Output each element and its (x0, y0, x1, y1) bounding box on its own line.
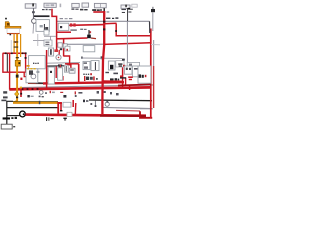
wire black y107.5 left (7, 107, 58, 109)
text row under G4 (80, 9, 88, 11)
bulb circle x107 y104 (105, 102, 109, 106)
gray connector x50.5 (50, 37, 52, 41)
dark dash left of bus A (28, 82, 43, 84)
wire red horiz y35.5 (116, 24, 150, 36)
wire red x122.5 vertical (122, 61, 124, 88)
wire gray long y87 (20, 85, 153, 88)
text row under G2 (42, 9, 51, 10)
wire red corner x68-71 y64 (67, 65, 71, 68)
clamp tick on orange bar (39, 101, 41, 104)
box G3 (72, 3, 79, 7)
text PIE right (110, 78, 119, 80)
wire red x61 stub (60, 103, 62, 110)
switch box x64.5-68 y65-72 (64, 65, 68, 72)
text marks bottom (46, 117, 47, 121)
small text left column (1, 91, 7, 101)
text row under G3 (71, 8, 78, 9)
wire red x58 elbow to bus (58, 102, 62, 104)
wire gray bus y21 (57, 20, 150, 22)
wire red x21 below bus B (20, 90, 22, 98)
connector on bottom bus (67, 112, 72, 116)
fuse symbols under G6 (121, 8, 132, 21)
wire orange x20.5 (20, 34, 22, 57)
wire black y66 (47, 65, 67, 67)
box x57.5-62.5 y68-80 (58, 68, 63, 80)
orange fuse block (15, 60, 20, 66)
red marks on relay plate (128, 76, 133, 78)
wire red x46.5 long vertical (46, 50, 48, 90)
yellow tick above bus left (20, 87, 22, 89)
wire red y81 overlay (103, 80, 122, 82)
lamp symbol with vertical wire top-left (32, 8, 34, 18)
box x48.5-53.5 y48 (48, 48, 53, 56)
gray stub x95 (94, 101, 96, 107)
orange connector diamond (14, 92, 19, 97)
junction dots x25.5 (25, 52, 27, 54)
wire red corner y56 (64, 56, 70, 64)
ground bar (3, 117, 10, 119)
wire red y53 (3, 52, 26, 54)
wire gray right stub above (149, 21, 151, 33)
wire black stub x89 (88, 30, 90, 35)
wire gray y107.5 right (103, 107, 152, 108)
orange dash x26.5-29.5 y65 (27, 65, 30, 67)
wire red x55.5 between boxes (55, 67, 57, 79)
wire red branch y23 (104, 22, 117, 25)
boxes row y60-70 mid-right (83, 61, 90, 69)
text marks right of cluster (70, 29, 76, 30)
box mid-left under bar (36, 20, 49, 32)
tick below connector diamond (16, 97, 18, 99)
wire black battery box top (7, 101, 13, 124)
wire red thin y110.7 (116, 109, 140, 112)
wire red bottom-right corner (140, 111, 152, 118)
dark tick left of gray y58 (81, 57, 83, 59)
relay component on y38 (87, 35, 91, 39)
wire red continues from orange (58, 103, 63, 114)
battery area small boxes bottom mid (63, 102, 71, 107)
black dot x10 (10, 34, 12, 36)
wire red x63.5 vertical (63, 38, 65, 56)
wire red x59.5 short (58, 50, 60, 55)
wire red blob x62.5 (62, 76, 64, 81)
wire red x71 into relay (70, 64, 72, 69)
wire red bottom bus dark segment (100, 115, 146, 117)
orange wire top edge (13, 101, 58, 103)
yellow ticks on cluster top (27, 68, 29, 69)
orange coil component top-left (5, 18, 21, 34)
text above black line bottom mid (83, 100, 92, 105)
text marks under gray line (80, 29, 83, 30)
wire black y100.5 (89, 99, 152, 102)
wire dark bar y16 (34, 15, 50, 17)
wire red x129.5 below (129, 86, 131, 90)
text marks below bus B (50, 91, 119, 98)
box G4 (82, 3, 89, 7)
ground dots (11, 117, 13, 119)
wire red bus B (9, 87, 151, 89)
wire gray stub right edge (151, 44, 160, 46)
coil dark marks (7, 23, 9, 26)
gray dash right of main vertical (107, 11, 110, 13)
junction dots on y53 wire (5, 52, 7, 54)
wire red x24 below y72 (24, 72, 29, 76)
text marks above gray line right (60, 17, 119, 19)
wire orange horizontal bottom (13, 102, 58, 104)
junction on branch x116 (115, 30, 117, 32)
wire gray mid y43.5 (66, 43, 104, 45)
gray vertical x127 (126, 22, 128, 63)
small box top right (151, 9, 155, 12)
box G5 double (94, 3, 106, 7)
relay plate boxes right y66-84 (124, 66, 132, 74)
junction dots on bus B (22, 88, 24, 90)
wire red x2.5 vertical and y72 corner (3, 53, 26, 72)
wire dark red y85 right (118, 84, 151, 85)
red connector cluster at 70-75 (70, 23, 72, 26)
generator circle (20, 111, 26, 117)
wire red x25.5 (25, 53, 27, 72)
rung ticks on orange wires (14, 41, 19, 42)
gray line y40.5 stub left (33, 40, 44, 42)
wire red right edge vertical (150, 29, 152, 119)
wire dark red stub y38 (91, 37, 96, 40)
junction dot on orange (15, 41, 16, 43)
instrument cluster lower (26, 69, 38, 83)
wire red y25 left (69, 24, 104, 27)
wire red right second vertical (153, 40, 155, 66)
wire red from box2 down (52, 9, 57, 52)
wire gray right corner top (140, 108, 153, 110)
ground mark mid bottom (63, 118, 66, 119)
wire black x7.2 (6, 54, 8, 72)
wire red y42.5 right (104, 43, 151, 45)
component cluster x118-140 y62-68 (127, 62, 139, 68)
wire gray y58 (81, 57, 122, 59)
wire red y38.5 across (57, 37, 88, 40)
box x58-69 (58, 23, 69, 30)
wire red top stub (93, 11, 104, 13)
box x65-70 y46 (65, 46, 70, 51)
box x83-95 y45.5 (83, 46, 95, 52)
wire red x75.5 diag (74, 103, 77, 115)
gray line y36 stub (44, 35, 56, 37)
connector tick x60 (60, 4, 62, 8)
marks under boxes (83, 72, 118, 75)
box G7 light (132, 4, 137, 7)
dark band on orange wire (16, 75, 19, 78)
wire red y63.5 (65, 63, 79, 65)
label tick (13, 126, 15, 127)
gauge circle x57 y56.5 (56, 55, 61, 60)
cluster small boxes x57-68 y42-52 (58, 43, 62, 47)
wire red bottom bus (25, 115, 146, 116)
dark marks under gauge (58, 64, 62, 65)
relay cluster x69-75 y68-73 (69, 68, 75, 73)
wire red bus A (43, 82, 124, 83)
red connector x54.5-58 y49 (54, 49, 58, 52)
gray cross x38-44 (37, 34, 39, 46)
instrument big box x28.5-45 (29, 56, 46, 69)
box G2 (44, 3, 56, 7)
wire orange main x17 (14, 34, 18, 103)
box G1 (25, 4, 36, 8)
red dot left of cluster (20, 78, 22, 80)
wire orange x14 (13, 34, 15, 53)
tall box x48-54.5 y67-84 (48, 67, 54, 84)
box G6 (121, 5, 130, 8)
gray stub x11 (10, 40, 12, 52)
gauge circle below bus left (39, 91, 43, 95)
wire red x125.5 short vertical (125, 78, 127, 85)
red box SE (84, 76, 85, 81)
wire red x78.5 vertical (78, 64, 80, 84)
wire red branch y32 (57, 31, 71, 33)
label box bottom-left (1, 124, 12, 129)
text marks above bus rows (96, 78, 97, 80)
wire black y115.5 to generator (7, 115, 20, 117)
wire gray y63 (46, 62, 80, 65)
boxes row mid y30-46 left (44, 30, 49, 35)
junction dots on main vertical (103, 21, 105, 23)
wire red main vertical (103, 7, 105, 11)
wire red x73 stub (72, 100, 74, 107)
text row under G5 (92, 9, 102, 11)
wire red x9.5 (9, 54, 11, 90)
